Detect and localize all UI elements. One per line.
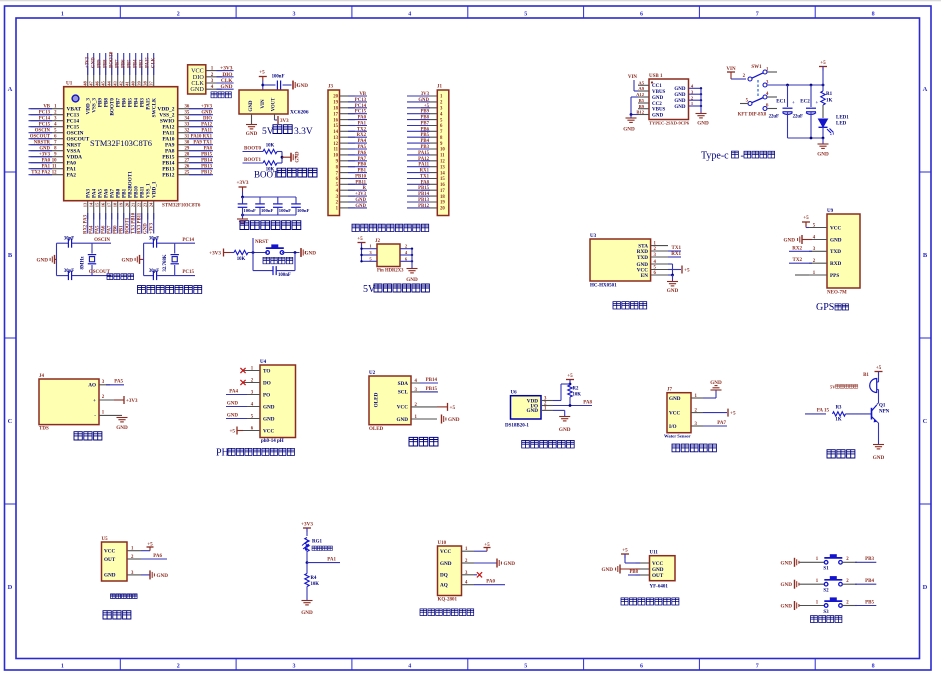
- svg-text:PC14: PC14: [182, 238, 194, 243]
- U1 pin 17 PA7 wire / net PA7: [111, 201, 113, 220]
- net label NRST vertical: [252, 238, 254, 253]
- svg-text:7: 7: [756, 12, 759, 18]
- connector J7 water sensor body: [667, 393, 691, 433]
- svg-text:PB12: PB12: [201, 171, 213, 176]
- title 独立按键: [811, 616, 842, 623]
- svg-text:12: 12: [52, 171, 57, 176]
- svg-text:OSCOUT: OSCOUT: [30, 135, 51, 140]
- resistor 10K lower: [263, 161, 277, 165]
- svg-text:J3: J3: [328, 85, 334, 90]
- svg-text:-: -: [741, 151, 744, 162]
- net label PB14: [420, 382, 438, 384]
- svg-text:VBUS: VBUS: [652, 108, 666, 113]
- svg-text:VCC: VCC: [397, 405, 408, 411]
- no connect X pin1: [240, 368, 245, 373]
- svg-text:TYPEC-2SXD-9CP6: TYPEC-2SXD-9CP6: [649, 121, 690, 126]
- svg-text:PB1: PB1: [120, 225, 125, 234]
- net label PB15: [420, 391, 438, 393]
- svg-text:KFT DIP-8X8: KFT DIP-8X8: [738, 113, 767, 118]
- svg-text:PA1: PA1: [358, 122, 367, 127]
- svg-text:+3V3: +3V3: [355, 192, 367, 197]
- svg-text:20: 20: [333, 95, 338, 100]
- wire bottom loop: [252, 253, 254, 271]
- svg-text:PC15: PC15: [39, 123, 51, 128]
- net label GND pin5: [226, 418, 247, 420]
- svg-text:PPS: PPS: [830, 273, 839, 279]
- svg-text:GND: GND: [121, 258, 133, 264]
- svg-text:+3V3: +3V3: [85, 56, 90, 68]
- svg-text:RG1: RG1: [312, 540, 323, 545]
- svg-text:PA7: PA7: [358, 157, 367, 162]
- svg-text:2: 2: [177, 664, 180, 670]
- U1 pin 11 PA1 wire / net PA1: [31, 168, 64, 170]
- svg-text:CC2: CC2: [652, 102, 662, 107]
- svg-text:PB1: PB1: [357, 169, 366, 174]
- svg-text:D: D: [923, 584, 928, 591]
- svg-text:R2: R2: [573, 387, 579, 392]
- svg-text:21: 21: [131, 202, 136, 207]
- wire rg1 to node: [306, 552, 308, 563]
- svg-text:2: 2: [177, 12, 180, 18]
- label 浊度传感器 small: [111, 594, 138, 599]
- svg-text:LED: LED: [836, 122, 847, 127]
- svg-text:GND: GND: [157, 573, 169, 579]
- svg-text:GND: GND: [652, 113, 664, 118]
- svg-text:PA0: PA0: [486, 580, 495, 585]
- svg-text:PB7: PB7: [115, 59, 120, 68]
- J2 pin 6 wire: [400, 260, 412, 262]
- svg-text:3V3: 3V3: [280, 119, 289, 124]
- ground GND port: [300, 249, 302, 257]
- svg-text:GND: GND: [674, 105, 686, 110]
- U1 pin 30 PA9 wire / net PA9 TX1: [178, 144, 211, 146]
- connector J2 body: [377, 244, 400, 267]
- svg-text:SWCLK: SWCLK: [152, 98, 158, 117]
- svg-text:RX3 PB11: RX3 PB11: [138, 212, 143, 234]
- svg-text:R1: R1: [826, 92, 833, 97]
- svg-text:PB9: PB9: [97, 59, 102, 68]
- svg-text:GND: GND: [667, 288, 679, 294]
- svg-text:PA1: PA1: [327, 557, 336, 562]
- svg-text:16: 16: [101, 202, 106, 207]
- ic U4 ph body: [260, 365, 296, 438]
- svg-text:U2: U2: [369, 371, 376, 376]
- wire R3 to base: [846, 413, 872, 415]
- svg-text:PA8: PA8: [583, 400, 592, 405]
- svg-text:30: 30: [185, 141, 190, 146]
- svg-text:VIN: VIN: [628, 75, 638, 80]
- svg-text:VIN: VIN: [726, 67, 736, 72]
- svg-text:22uF: 22uF: [769, 115, 779, 120]
- svg-text:PA0: PA0: [358, 116, 367, 121]
- svg-text:AQ: AQ: [440, 583, 448, 589]
- connector P1 download header body: [188, 65, 206, 94]
- svg-text:+3V3: +3V3: [301, 522, 313, 528]
- J2 pin 2 wire: [400, 248, 412, 250]
- svg-text:PB15: PB15: [201, 153, 213, 158]
- svg-text:U3: U3: [590, 234, 597, 239]
- svg-text:40: 40: [131, 81, 136, 86]
- svg-text:+: +: [816, 101, 819, 106]
- svg-text:+: +: [792, 101, 795, 106]
- svg-text:5V: 5V: [262, 127, 274, 137]
- net label PA4: [226, 394, 247, 396]
- svg-text:OUT: OUT: [652, 573, 664, 579]
- svg-text:U11: U11: [650, 551, 659, 556]
- wire buzzer top: [877, 381, 879, 383]
- capacitor 30pF top: [144, 242, 153, 244]
- svg-text:PB3: PB3: [865, 557, 874, 562]
- svg-text:PA4: PA4: [358, 139, 367, 144]
- svg-text:14: 14: [440, 171, 445, 176]
- net label PA7 water: [703, 425, 727, 427]
- svg-text:32: 32: [185, 129, 190, 134]
- svg-text:PB3: PB3: [139, 59, 144, 68]
- svg-text:PH: PH: [216, 448, 229, 459]
- svg-text:23: 23: [143, 202, 148, 207]
- svg-text:U1: U1: [66, 81, 73, 87]
- svg-text:PA6: PA6: [153, 554, 162, 559]
- svg-text:AO: AO: [88, 383, 96, 389]
- wire +3V3 to resistor: [224, 252, 232, 254]
- svg-text:22uF: 22uF: [793, 115, 803, 120]
- svg-text:PB5: PB5: [127, 59, 132, 68]
- svg-text:30pF: 30pF: [149, 237, 159, 242]
- svg-text:GND: GND: [873, 455, 885, 461]
- svg-text:VB: VB: [43, 105, 50, 110]
- U1 pin 18 PB0 wire / net PB0: [117, 201, 119, 220]
- svg-text:10K: 10K: [311, 582, 320, 587]
- svg-text:CLK: CLK: [151, 57, 156, 68]
- svg-text:CC1: CC1: [652, 84, 662, 89]
- svg-text:39: 39: [137, 81, 142, 86]
- svg-text:GND: GND: [104, 573, 116, 579]
- svg-text:PB14: PB14: [418, 192, 430, 197]
- svg-text:+5: +5: [684, 268, 690, 274]
- svg-text:33: 33: [185, 123, 190, 128]
- svg-text:10K: 10K: [573, 393, 582, 398]
- svg-text:NRST: NRST: [255, 240, 269, 245]
- svg-text:GND: GND: [396, 417, 408, 423]
- svg-text:PB4: PB4: [865, 579, 874, 584]
- svg-text:BOOT: BOOT: [254, 170, 279, 180]
- svg-text:8MHz: 8MHz: [81, 256, 86, 270]
- svg-text:47: 47: [89, 81, 94, 86]
- svg-text:3.3V: 3.3V: [294, 127, 313, 137]
- svg-text:BOOT0: BOOT0: [244, 147, 261, 152]
- svg-text:RX1: RX1: [420, 169, 430, 174]
- svg-text:GND: GND: [301, 610, 313, 616]
- svg-text:Q1: Q1: [879, 404, 886, 409]
- svg-text:18: 18: [440, 195, 445, 200]
- svg-text:RX2: RX2: [357, 133, 367, 138]
- svg-text:VCC: VCC: [440, 549, 451, 555]
- svg-text:+5: +5: [259, 70, 265, 76]
- crystal Y: [91, 243, 93, 253]
- svg-text:B1: B1: [863, 373, 869, 378]
- svg-text:15: 15: [333, 124, 338, 129]
- svg-text:S1: S1: [823, 567, 829, 572]
- svg-text:OSCIN: OSCIN: [35, 129, 51, 134]
- net label RX1: [668, 256, 681, 258]
- svg-text:PA8: PA8: [204, 147, 213, 152]
- svg-text:17: 17: [440, 189, 445, 194]
- svg-text:10: 10: [333, 154, 338, 159]
- svg-text:19: 19: [440, 201, 445, 206]
- ic U2 OLED body: [369, 376, 411, 425]
- svg-text:+5: +5: [229, 428, 235, 434]
- svg-text:GND: GND: [674, 99, 686, 104]
- wire left rail: [56, 243, 58, 275]
- svg-text:GND: GND: [526, 408, 538, 414]
- svg-text:+5: +5: [803, 215, 809, 221]
- svg-text:A5: A5: [638, 81, 644, 86]
- svg-text:PA5: PA5: [114, 380, 123, 385]
- wire gnd to button S3: [799, 605, 825, 607]
- net label BOOT0: [243, 151, 264, 153]
- svg-text:NEO-7M: NEO-7M: [827, 291, 847, 296]
- svg-text:DIO: DIO: [222, 72, 232, 78]
- svg-text:DIO: DIO: [203, 117, 212, 122]
- wire r4 to ground: [306, 587, 308, 601]
- svg-text:PA8: PA8: [421, 180, 430, 185]
- wire EN to ground: [668, 274, 673, 276]
- svg-text:GND: GND: [296, 151, 301, 163]
- title 温度采集模块: [522, 440, 574, 448]
- ic U XC6206 body: [239, 90, 288, 114]
- connector J1 header body: [437, 90, 449, 216]
- svg-text:30pF: 30pF: [149, 269, 159, 274]
- U1 pin 45 PB8 wire / net PB8: [105, 66, 107, 87]
- connector USB1 type-c body: [649, 79, 689, 120]
- svg-text:GND: GND: [601, 567, 613, 573]
- svg-text:8: 8: [872, 664, 875, 670]
- svg-text:PB10: PB10: [355, 175, 367, 180]
- svg-text:VBUS: VBUS: [652, 90, 666, 95]
- svg-text:PB9: PB9: [420, 110, 429, 115]
- svg-text:VOUT: VOUT: [272, 97, 277, 111]
- svg-text:1: 1: [61, 12, 64, 18]
- U1 pin 3 PC14 wire / net PC14: [31, 120, 64, 122]
- U1 pin 23 VSS_1 wire / net GND: [147, 201, 149, 220]
- svg-text:5: 5: [524, 12, 527, 18]
- svg-text:TX2: TX2: [793, 258, 803, 263]
- ground GND port oled: [441, 415, 443, 424]
- capacitor C2 100nF: [259, 197, 261, 203]
- svg-text:34: 34: [185, 117, 190, 122]
- U1 pin 13 PA3 wire / net RX2 PA3: [87, 201, 89, 220]
- ic U11 YF-6401 body: [650, 556, 676, 581]
- svg-text:PB0: PB0: [357, 163, 366, 168]
- svg-text:PA10 RX1: PA10 RX1: [191, 135, 213, 140]
- title 单片机最小系统: [138, 286, 202, 294]
- U1 pin 8 VSSA wire / net GND: [31, 150, 64, 152]
- svg-text:BOOT1: BOOT1: [126, 217, 131, 234]
- svg-text:GND: GND: [201, 111, 212, 116]
- svg-text:PA15: PA15: [418, 151, 429, 156]
- svg-text:J1: J1: [437, 85, 443, 90]
- svg-text:+5: +5: [730, 411, 736, 417]
- U1 pin 7 NRST wire / net NRSTR: [31, 144, 64, 146]
- svg-text:PC14: PC14: [39, 117, 51, 122]
- svg-text:GND: GND: [227, 402, 239, 407]
- svg-text:B: B: [923, 252, 928, 259]
- svg-text:37: 37: [149, 81, 154, 86]
- svg-text:PB6: PB6: [121, 59, 126, 68]
- U1 pin 4 PC15 wire / net PC15: [31, 126, 64, 128]
- svg-text:S2: S2: [823, 589, 829, 594]
- U1 pin 9 VDDA wire / net +3V3: [31, 156, 64, 158]
- svg-text:PB5: PB5: [865, 600, 874, 605]
- power 3V3 port: [277, 116, 279, 124]
- J2 pin 4 wire: [400, 254, 412, 256]
- svg-text:PB0: PB0: [114, 225, 119, 234]
- svg-text:1K: 1K: [835, 418, 841, 423]
- svg-text:PA9 TX1: PA9 TX1: [193, 141, 212, 146]
- ground GND port co2: [474, 562, 497, 564]
- svg-text:CLK: CLK: [221, 78, 233, 84]
- svg-text:100nF: 100nF: [261, 208, 273, 213]
- net label PA0 co2: [474, 584, 505, 586]
- svg-text:3: 3: [293, 664, 296, 670]
- ic U5 turbidity body: [102, 542, 128, 581]
- U1 pin 40 PB4 wire / net PB4: [135, 66, 137, 87]
- svg-text:PB4: PB4: [133, 59, 138, 68]
- svg-text:GND: GND: [783, 238, 795, 244]
- net label PA6: [141, 558, 167, 560]
- svg-text:TXD: TXD: [637, 255, 648, 261]
- svg-text:I/O: I/O: [669, 424, 677, 430]
- svg-text:8: 8: [872, 12, 875, 18]
- svg-text:SDA: SDA: [398, 381, 409, 387]
- wire +5 down and right to cap: [262, 81, 264, 91]
- svg-text:GND: GND: [817, 152, 829, 158]
- U1 pin 6 OSCOUT wire / net OSCOUT: [31, 138, 64, 140]
- svg-text:D: D: [8, 584, 13, 591]
- svg-text:PO: PO: [263, 392, 270, 398]
- U1 pin 38 PA15 wire / net PA15: [147, 66, 149, 87]
- diode LED1: [819, 119, 828, 127]
- svg-text:EC1: EC1: [776, 100, 786, 105]
- svg-text:GND: GND: [440, 561, 452, 567]
- U1 pin 34 SWIO wire / net DIO: [178, 120, 211, 122]
- U1 pin 24 VDD_1 wire / net +3V3: [153, 201, 155, 220]
- svg-text:J2: J2: [375, 239, 381, 244]
- svg-text:PA6: PA6: [358, 151, 367, 156]
- svg-text:PB14: PB14: [201, 159, 213, 164]
- svg-text:PA15: PA15: [145, 57, 150, 68]
- U1 pin 41 PB5 wire / net PB5: [129, 66, 131, 87]
- svg-text:J4: J4: [39, 374, 45, 379]
- svg-text:LED1: LED1: [836, 116, 849, 121]
- svg-text:10: 10: [440, 148, 445, 153]
- svg-text:26: 26: [185, 165, 190, 170]
- svg-text:PA 15: PA 15: [817, 409, 830, 414]
- svg-text:+3V3: +3V3: [209, 251, 221, 257]
- svg-text:RX1: RX1: [671, 252, 681, 257]
- capacitor 30pF bottom: [144, 275, 153, 277]
- wire join to GND: [281, 152, 283, 164]
- svg-text:PB5: PB5: [420, 133, 429, 138]
- svg-text:GND: GND: [697, 121, 709, 127]
- svg-text:16: 16: [440, 183, 445, 188]
- svg-text:1: 1: [61, 664, 64, 670]
- svg-text:VCC: VCC: [263, 428, 274, 434]
- U1 pin 36 VDD_2 wire / net +3V3: [178, 108, 211, 110]
- svg-text:NRSTR: NRSTR: [34, 141, 51, 146]
- svg-text:GND: GND: [221, 84, 233, 90]
- svg-text:PA11: PA11: [201, 129, 212, 134]
- ground earth usb left: [626, 117, 637, 119]
- title 蜂鸣器: [827, 450, 855, 458]
- U1 pin 22 PB11 wire / net RX3 PB11: [141, 201, 143, 220]
- capacitor C1 100nF: [242, 197, 244, 203]
- svg-text:13: 13: [83, 202, 88, 207]
- svg-text:GND: GND: [91, 57, 96, 68]
- U1 pin 16 PA6 wire / net PA6: [105, 201, 107, 220]
- svg-text:18: 18: [333, 107, 338, 112]
- svg-text:SCL: SCL: [398, 390, 409, 396]
- wire button to net PB3: [842, 561, 857, 563]
- svg-text:U10: U10: [438, 541, 447, 546]
- connector J4 TDS body: [39, 379, 99, 425]
- svg-text:GND: GND: [246, 131, 258, 137]
- title 浑浊度: [103, 611, 131, 619]
- svg-text:10K: 10K: [237, 257, 246, 262]
- U1 pin 29 PA8 wire / net PA8: [178, 150, 211, 152]
- U1 pin 21 PB10 wire / net TX3 PB10: [135, 201, 137, 220]
- wire bottom rail: [243, 214, 297, 216]
- photoresistor RG1: [305, 538, 309, 552]
- U1 pin 12 PA2 wire / net TX2 PA2: [31, 174, 64, 176]
- U1 pin 26 PB13 wire / net PB13: [178, 168, 211, 170]
- svg-text:100nF: 100nF: [297, 208, 309, 213]
- svg-text:GND: GND: [418, 98, 429, 103]
- svg-text:U4: U4: [260, 360, 267, 365]
- resistor R2 10K: [568, 385, 572, 397]
- svg-text:GND: GND: [36, 258, 48, 264]
- switch button S3: [824, 604, 828, 608]
- svg-text:KQ-2801: KQ-2801: [438, 598, 458, 603]
- svg-text:PA4: PA4: [90, 225, 95, 234]
- U1 pin 10 PA0 wire / net PA0: [31, 162, 64, 164]
- svg-text:GND: GND: [780, 582, 792, 588]
- svg-text:100nF: 100nF: [272, 75, 285, 80]
- svg-text:GND: GND: [297, 83, 309, 89]
- wire button to net PB4: [842, 583, 857, 585]
- power +5 port turbidity: [141, 550, 150, 552]
- svg-text:PA6: PA6: [102, 225, 107, 234]
- wire button to GND: [282, 252, 300, 254]
- svg-text:B9: B9: [639, 104, 645, 109]
- power +5 port oled: [437, 406, 447, 408]
- U1 pin 25 PB12 wire / net PB12: [178, 174, 211, 176]
- svg-text:PB14: PB14: [426, 378, 438, 383]
- svg-text:6: 6: [640, 664, 643, 670]
- ic U1 STM32F103C8T6 body: [64, 87, 178, 201]
- power +5 port co2: [474, 550, 487, 552]
- svg-text:PB4: PB4: [420, 139, 429, 144]
- wire VIN to switch pole 2: [731, 78, 746, 80]
- transistor Q1 NPN: [871, 408, 873, 420]
- net label RX2 gps: [789, 250, 812, 252]
- svg-text:29: 29: [185, 147, 190, 152]
- wire +5 rail left: [361, 243, 363, 262]
- wire usb left bus: [633, 80, 635, 91]
- U1 pin 32 PA11 wire / net PA11: [178, 132, 211, 134]
- svg-text:3: 3: [293, 12, 296, 18]
- svg-text:17: 17: [107, 202, 112, 207]
